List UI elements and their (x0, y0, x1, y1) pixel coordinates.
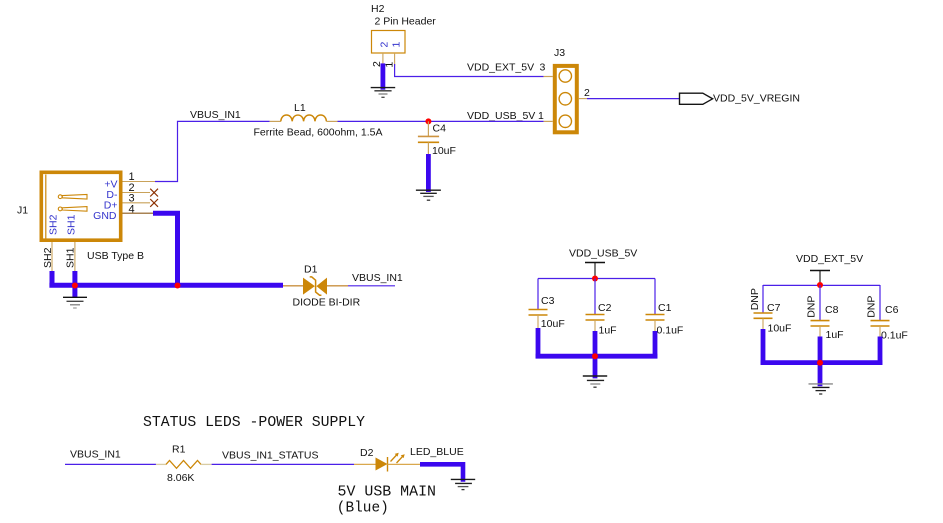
wire thick SH2 to bus (50, 271, 55, 286)
svg-text:0.1uF: 0.1uF (657, 325, 684, 337)
capacitor C6 (871, 321, 890, 339)
svg-text:VDD_EXT_5V: VDD_EXT_5V (796, 253, 863, 265)
capacitor C2 (586, 315, 605, 334)
no-connect X on pin 3 (150, 199, 158, 207)
svg-text:VBUS_IN1: VBUS_IN1 (352, 272, 403, 284)
wire thick SH1 to ground (72, 271, 77, 298)
off-page connector flag VDD_5V_VREGIN (680, 93, 713, 104)
svg-text:C6: C6 (885, 304, 899, 316)
svg-text:3: 3 (540, 62, 546, 74)
wire VBUS_IN1 from J1 pin1 up and right (155, 121, 270, 181)
svg-text:SH1: SH1 (65, 247, 77, 268)
wire thick USB bank ground bus (536, 354, 658, 359)
ground below EXT bank (809, 384, 833, 394)
wire J3 pin2 to off-page flag (587, 98, 680, 100)
svg-text:VBUS_IN1: VBUS_IN1 (70, 448, 121, 460)
wire top rail USB bank (538, 278, 655, 280)
wire thick J1 GND pin to bus (153, 213, 178, 285)
wire D1 to VBUS_IN1 label (348, 285, 395, 287)
wire C3 branch (537, 279, 539, 310)
capacitor C3 (529, 310, 548, 331)
no-connect X on pin 2 (150, 189, 158, 197)
svg-text:2 Pin Header: 2 Pin Header (375, 15, 437, 27)
ground below SH1 (63, 297, 87, 308)
svg-text:C4: C4 (433, 123, 447, 135)
wire thick C7 to bus (761, 329, 766, 365)
J1 shield SH2 stub (51, 242, 53, 272)
wire thick H2 pin2 to ground (380, 63, 385, 89)
J1 pin 4 stub (123, 212, 154, 214)
wire C7 branch (762, 285, 764, 313)
wire VBUS_IN1 to R1 (65, 463, 156, 465)
ground below USB bank (583, 376, 607, 387)
wire C6 branch (879, 285, 881, 320)
svg-text:1: 1 (538, 110, 544, 122)
junction at C4 (425, 118, 431, 124)
diode D1 (bidirectional TVS) (283, 277, 348, 295)
svg-text:1uF: 1uF (599, 325, 617, 337)
junction USB bank bus (592, 353, 598, 359)
svg-text:10uF: 10uF (768, 322, 792, 334)
svg-text:8.06K: 8.06K (167, 472, 194, 484)
svg-text:VBUS_IN1: VBUS_IN1 (190, 109, 241, 121)
svg-text:1: 1 (390, 42, 402, 48)
J3 pin 3 stub (544, 76, 553, 78)
svg-text:C1: C1 (658, 302, 672, 314)
wire R1 to D2 (212, 463, 354, 465)
resistor R1 (156, 461, 212, 469)
svg-text:J3: J3 (554, 47, 565, 59)
junction at GND wire (175, 283, 181, 289)
svg-text:2: 2 (584, 87, 590, 99)
ground below LED (451, 479, 475, 489)
svg-text:VDD_5V_VREGIN: VDD_5V_VREGIN (713, 92, 800, 104)
LED D2 emission arrows (391, 453, 405, 463)
J1 shield SH1 stub (74, 242, 76, 272)
ground below H2 (371, 88, 396, 98)
svg-text:SH2: SH2 (42, 247, 54, 268)
svg-text:VBUS_IN1_STATUS: VBUS_IN1_STATUS (222, 450, 318, 462)
svg-text:VDD_EXT_5V: VDD_EXT_5V (467, 62, 534, 74)
LED D2 (354, 457, 420, 472)
svg-text:4: 4 (129, 204, 135, 216)
inductor L1 (270, 115, 338, 121)
junction top rail EXT bank (817, 282, 823, 288)
svg-text:DNP: DNP (806, 296, 818, 318)
svg-text:2: 2 (379, 42, 391, 48)
svg-text:VDD_USB_5V: VDD_USB_5V (467, 110, 535, 122)
wire thick C1 to bus (653, 331, 658, 358)
wire L1 to J3 pin1 (338, 120, 544, 122)
J1 pin 2 stub (123, 192, 151, 194)
wire C8 branch (819, 285, 821, 320)
svg-text:D1: D1 (304, 263, 318, 275)
connector H2 body (372, 31, 406, 54)
wire thick C4 to ground (426, 154, 431, 192)
wire thick C8 through bus to ground (818, 337, 823, 387)
J1 pin 3 stub (123, 202, 151, 204)
svg-text:10uF: 10uF (541, 318, 565, 330)
svg-text:R1: R1 (172, 444, 186, 456)
svg-text:SH1: SH1 (65, 214, 77, 235)
wire thick EXT bank ground bus (761, 360, 883, 365)
svg-text:DNP: DNP (749, 288, 761, 310)
capacitor C1 (646, 315, 665, 334)
connector J1 body (USB Type B) (41, 172, 120, 240)
svg-text:C3: C3 (541, 295, 555, 307)
junction at SH1 (72, 283, 78, 289)
capacitor C4 (418, 121, 439, 154)
wire H2 pin1 to J3 pin3 (VDD_EXT_5V) (395, 64, 544, 77)
J3 pin 2 stub (579, 98, 587, 100)
svg-text:10uF: 10uF (432, 145, 456, 157)
svg-text:SH2: SH2 (48, 214, 60, 235)
svg-text:DNP: DNP (866, 296, 878, 318)
svg-text:0.1uF: 0.1uF (881, 330, 908, 342)
J3 pin 1 stub (544, 120, 553, 122)
wire C2 branch (594, 279, 596, 315)
J1 pin 1 stub (123, 181, 156, 183)
capacitor C8 (811, 321, 830, 339)
wire thick C3 to bus (536, 328, 541, 358)
svg-text:1uF: 1uF (826, 329, 844, 341)
svg-text:Ferrite Bead, 600ohm, 1.5A: Ferrite Bead, 600ohm, 1.5A (254, 126, 383, 138)
svg-text:STATUS LEDS -POWER SUPPLY: STATUS LEDS -POWER SUPPLY (143, 415, 365, 431)
connector J3 body (555, 66, 577, 132)
svg-text:LED_BLUE: LED_BLUE (410, 446, 464, 458)
wire top rail EXT bank (763, 284, 880, 286)
svg-text:GND: GND (93, 210, 117, 222)
H2 pin 1 stub (394, 53, 396, 66)
power symbol VDD_EXT_5V (796, 253, 863, 285)
svg-text:1: 1 (384, 62, 396, 68)
svg-text:C8: C8 (825, 304, 839, 316)
svg-text:L1: L1 (294, 102, 306, 114)
svg-text:J1: J1 (17, 205, 28, 217)
svg-text:H2: H2 (371, 3, 385, 15)
svg-text:VDD_USB_5V: VDD_USB_5V (569, 248, 637, 260)
svg-text:5V USB MAIN: 5V USB MAIN (338, 485, 437, 501)
wire thick C2 through bus to ground (593, 331, 598, 378)
power symbol VDD_USB_5V (569, 248, 637, 279)
junction top rail USB bank (592, 276, 598, 282)
svg-text:DIODE BI-DIR: DIODE BI-DIR (293, 297, 361, 309)
svg-text:USB Type B: USB Type B (87, 250, 144, 262)
wire C1 branch (654, 279, 656, 315)
H2 pin 2 stub (382, 53, 384, 66)
ground below C4 (416, 190, 441, 200)
junction EXT bank bus (817, 360, 823, 366)
wire thick D2 to ground (420, 464, 463, 481)
svg-text:D2: D2 (360, 447, 374, 459)
wire thick ground bus (49, 283, 283, 288)
capacitor C7 (754, 313, 773, 331)
svg-text:C2: C2 (598, 302, 612, 314)
wire thick C6 to bus (878, 337, 883, 365)
svg-text:(Blue): (Blue) (337, 500, 389, 516)
